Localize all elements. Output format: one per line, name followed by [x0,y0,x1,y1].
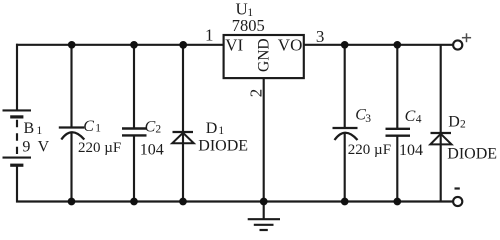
svg-text:1: 1 [37,125,43,137]
svg-text:4: 4 [416,114,422,126]
svg-text:B: B [24,120,35,137]
svg-text:104: 104 [399,142,423,159]
svg-text:220 µF: 220 µF [348,142,391,158]
svg-text:2: 2 [460,119,466,131]
svg-text:C: C [83,118,94,135]
svg-text:1: 1 [205,25,214,44]
svg-text:220 µF: 220 µF [78,140,121,156]
svg-text:C: C [405,108,416,125]
svg-text:VO: VO [278,36,303,55]
svg-text:9: 9 [22,139,30,156]
svg-text:3: 3 [365,113,371,125]
svg-text:D: D [206,120,218,137]
svg-text:V: V [38,139,50,156]
svg-text:1: 1 [218,125,224,137]
svg-text:2: 2 [155,123,161,135]
svg-text:1: 1 [95,123,101,135]
svg-text:DIODE: DIODE [447,146,497,163]
svg-text:104: 104 [140,142,164,159]
svg-text:C: C [145,118,156,135]
svg-text:2: 2 [247,89,266,98]
svg-text:D: D [448,113,460,130]
svg-text:GND: GND [255,38,272,72]
svg-text:DIODE: DIODE [198,138,248,155]
svg-text:7805: 7805 [232,16,265,35]
svg-text:3: 3 [316,27,325,46]
svg-text:VI: VI [225,36,243,55]
